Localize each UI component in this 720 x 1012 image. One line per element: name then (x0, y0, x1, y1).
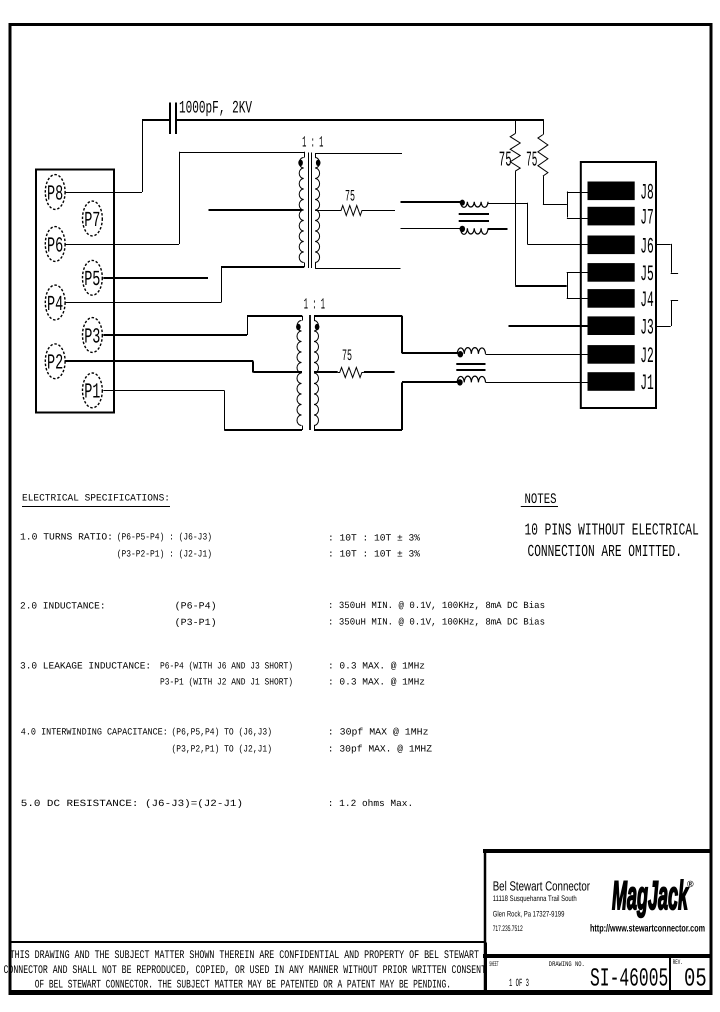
svg-text:: 10T : 10T ± 3%: : 10T : 10T ± 3% (328, 549, 420, 560)
pin P3 circle (83, 318, 103, 353)
svg-text:75: 75 (345, 187, 355, 205)
svg-text:(P6-P4): (P6-P4) (175, 601, 217, 612)
svg-text:Glen Rock, Pa 17327-9199: Glen Rock, Pa 17327-9199 (493, 910, 565, 919)
svg-text:J5: J5 (640, 262, 654, 287)
choke L2 top coil phase dot (458, 351, 464, 357)
svg-text:2.0 INDUCTANCE:: 2.0 INDUCTANCE: (20, 601, 106, 612)
svg-text:ELECTRICAL SPECIFICATIONS:: ELECTRICAL SPECIFICATIONS: (22, 492, 170, 503)
svg-text:5.0 DC RESISTANCE: (J6-J3)=(J: 5.0 DC RESISTANCE: (J6-J3)=(J2-J1) (21, 798, 243, 809)
svg-text:1000pF, 2KV: 1000pF, 2KV (179, 99, 252, 119)
svg-text:(P3-P2-P1) : (J2-J1): (P3-P2-P1) : (J2-J1) (117, 548, 212, 559)
svg-text:P6: P6 (47, 234, 63, 258)
svg-text:: 0.3 MAX. @ 1MHz: : 0.3 MAX. @ 1MHz (328, 677, 425, 688)
transformer T2 primary winding (297, 321, 302, 426)
resistor R4 75 ohm vertical (543, 120, 545, 135)
svg-text:: 0.3 MAX. @ 1MHz: : 0.3 MAX. @ 1MHz (328, 660, 425, 671)
jack pin J3 pad (588, 316, 635, 335)
connector block P1-P8 outline (36, 170, 114, 413)
wire T2 secondary top to choke L2 (314, 315, 402, 317)
svg-text:CONNECTOR AND SHALL NOT BE REP: CONNECTOR AND SHALL NOT BE REPRODUCED, C… (4, 964, 487, 977)
svg-text:11118 Susquehanna Trail South: 11118 Susquehanna Trail South (493, 894, 577, 903)
svg-text:P8: P8 (47, 182, 63, 206)
wire T1 secondary top (315, 153, 402, 155)
wire J3 stub (509, 325, 589, 327)
svg-text:717.235.7512: 717.235.7512 (493, 924, 523, 933)
svg-text:(P6,P5,P4) TO (J6,J3): (P6,P5,P4) TO (J6,J3) (172, 727, 273, 738)
svg-text:4.0 INTERWINDING CAPACITANCE:: 4.0 INTERWINDING CAPACITANCE: (21, 727, 168, 738)
pin P6 circle (45, 227, 65, 262)
wire P6 to transformer T1 primary top (65, 244, 179, 246)
pin P4 circle (45, 285, 65, 320)
svg-text:10 PINS WITHOUT ELECTRICAL: 10 PINS WITHOUT ELECTRICAL (525, 522, 699, 541)
jack pin J8 pad (588, 182, 635, 201)
svg-text:J6: J6 (640, 234, 654, 259)
wire P8 to capacitor (65, 192, 142, 194)
wire capacitor to 75-ohm resistors (top net) (177, 119, 544, 121)
pin P7 circle (83, 201, 103, 236)
svg-text:1.0 TURNS RATIO:: 1.0 TURNS RATIO: (20, 532, 113, 543)
svg-text:DRAWING NO.: DRAWING NO. (549, 961, 585, 969)
choke L2 core (456, 363, 485, 365)
svg-text:: 350uH MIN. @ 0.1V, 100KHz, 8: : 350uH MIN. @ 0.1V, 100KHz, 8mA DC Bias (328, 616, 545, 627)
transformer T2 secondary phase dot (315, 324, 320, 330)
svg-text:75: 75 (499, 150, 512, 173)
transformer T2 core (309, 315, 311, 430)
svg-text:P1: P1 (84, 381, 100, 405)
pin P1 circle (83, 373, 103, 408)
choke L1 top coil phase dot (460, 200, 465, 206)
disclaimer box outline (10, 941, 486, 943)
svg-text:P4: P4 (47, 293, 63, 317)
jack pin J7 pad (588, 207, 635, 226)
svg-text:NOTES: NOTES (525, 492, 557, 508)
wire bracket J8-J7 (567, 192, 569, 218)
svg-text:THIS DRAWING AND THE SUBJECT M: THIS DRAWING AND THE SUBJECT MATTER SHOW… (10, 949, 479, 962)
svg-text:P3: P3 (84, 325, 100, 349)
wire P3 to transformer T2 primary top (103, 334, 247, 336)
jack pin J4 pad (588, 289, 635, 308)
wire bracket right J6-J5 (656, 244, 671, 246)
svg-text:1 OF 3: 1 OF 3 (509, 978, 529, 990)
svg-text:75: 75 (526, 150, 537, 173)
svg-text:P7: P7 (84, 209, 100, 233)
svg-text:1 : 1: 1 : 1 (302, 134, 323, 152)
svg-text:: 30pf MAX @ 1MHz: : 30pf MAX @ 1MHz (328, 727, 429, 738)
pin P8 circle (45, 175, 65, 210)
wire P5 stub (103, 277, 208, 279)
wire T2 secondary center to resistor R2 (314, 371, 338, 373)
transformer T1 secondary winding (315, 158, 320, 263)
resistor R1 75 ohm (339, 206, 364, 216)
svg-text:J1: J1 (640, 371, 654, 396)
wire P1 to transformer T2 primary bottom (103, 390, 224, 392)
jack block J1-J8 outline (581, 162, 656, 408)
svg-text:P6-P4 (WITH J6 AND J3 SHORT): P6-P4 (WITH J6 AND J3 SHORT) (160, 660, 293, 671)
choke L2 bottom coil phase dot (457, 379, 463, 385)
jack pin J6 pad (588, 236, 635, 255)
svg-text:J4: J4 (640, 288, 654, 313)
svg-text:CONNECTION ARE OMITTED.: CONNECTION ARE OMITTED. (528, 543, 683, 562)
choke L2 top coil (457, 348, 485, 354)
wire P2 to transformer T2 primary center tap (65, 360, 253, 362)
wire T1 primary center tap (209, 209, 303, 211)
svg-text:J3: J3 (640, 315, 654, 340)
wire choke L2 bottom to J1 (486, 382, 589, 384)
transformer T2 secondary winding (314, 321, 319, 426)
transformer T1 primary phase dot (298, 160, 303, 166)
svg-text:05: 05 (684, 964, 707, 994)
svg-text:P3-P1 (WITH J2 AND J1 SHORT): P3-P1 (WITH J2 AND J1 SHORT) (160, 677, 293, 688)
svg-text:http://www.stewartconnector.co: http://www.stewartconnector.com (590, 923, 705, 934)
wire P4 to transformer T1 primary bottom (65, 302, 221, 304)
svg-text:3.0 LEAKAGE INDUCTANCE:: 3.0 LEAKAGE INDUCTANCE: (20, 660, 151, 671)
svg-text:P2: P2 (47, 352, 63, 376)
svg-text:J8: J8 (640, 180, 654, 205)
svg-text:: 1.2 ohms Max.: : 1.2 ohms Max. (328, 798, 413, 809)
wire resistor R1 stub (364, 210, 395, 212)
choke L1 bottom coil (461, 228, 489, 234)
svg-text:SHEET: SHEET (489, 961, 498, 969)
resistor R3 75 ohm vertical (515, 120, 517, 134)
jack pin J2 pad (588, 345, 635, 364)
svg-text:1 : 1: 1 : 1 (304, 295, 325, 313)
transformer T1 primary winding (299, 158, 304, 263)
title block outline (483, 849, 711, 853)
svg-text:J2: J2 (640, 344, 654, 369)
wire choke L2 top to J2 (486, 354, 589, 356)
svg-text:®: ® (687, 879, 694, 889)
wire T1 secondary bottom (315, 268, 400, 270)
wire to choke L1 bottom coil (401, 228, 462, 230)
pin P5 circle (83, 260, 103, 295)
svg-text:REV.: REV. (673, 959, 683, 967)
resistor R2 75 ohm (338, 368, 364, 378)
jack pin J1 pad (588, 372, 635, 391)
svg-text:(P3-P1): (P3-P1) (175, 617, 217, 628)
choke L2 bottom coil (457, 376, 485, 382)
svg-text:Bel Stewart Connector: Bel Stewart Connector (493, 879, 591, 894)
svg-text:: 350uH MIN. @ 0.1V, 100KHz, 8: : 350uH MIN. @ 0.1V, 100KHz, 8mA DC Bias (328, 600, 545, 611)
transformer T2 primary phase dot (296, 324, 301, 330)
choke L1 core (459, 213, 489, 215)
capacitor C1 1000pF 2KV plates (169, 103, 171, 135)
jack pin J5 pad (588, 263, 635, 282)
svg-text:(P6-P5-P4) : (J6-J3): (P6-P5-P4) : (J6-J3) (117, 532, 212, 543)
wire bracket J5-J4 (567, 272, 569, 298)
svg-text:P5: P5 (84, 268, 100, 292)
choke L1 bottom coil phase dot (460, 226, 466, 232)
svg-text:75: 75 (342, 347, 352, 365)
wire T2 secondary bottom to choke L2 (314, 429, 402, 431)
wire T1 secondary center to resistor R1 (315, 210, 339, 212)
wire resistor R4 to J8/J7 bracket (543, 176, 545, 204)
wire T1 secondary top jog to choke L1 (401, 201, 462, 203)
svg-text:MagJack: MagJack (612, 874, 689, 918)
svg-text:OF BEL STEWART CONNECTOR. THE: OF BEL STEWART CONNECTOR. THE SUBJECT MA… (35, 979, 451, 992)
choke L1 top coil (461, 202, 489, 208)
svg-text:: 30pf MAX. @ 1MHZ: : 30pf MAX. @ 1MHZ (328, 743, 432, 754)
wire bracket right J4-J3 (671, 300, 678, 302)
wire resistor R3 to J5/J4 bracket (515, 171, 517, 285)
wire choke L1 top to J6 (488, 203, 527, 205)
wire choke L1 bottom stub (488, 228, 508, 230)
wire resistor R2 stub (364, 371, 395, 373)
svg-text:J7: J7 (640, 206, 654, 231)
svg-text:: 10T : 10T ± 3%: : 10T : 10T ± 3% (328, 532, 420, 543)
transformer T1 secondary phase dot (316, 160, 321, 166)
transformer T1 core (308, 153, 310, 269)
svg-text:(P3,P2,P1) TO (J2,J1): (P3,P2,P1) TO (J2,J1) (172, 743, 273, 754)
svg-text:SI-46005: SI-46005 (590, 964, 668, 994)
pin P2 circle (45, 344, 65, 379)
